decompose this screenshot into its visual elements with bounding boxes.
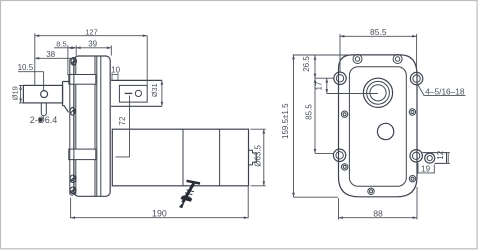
dimension 17 line xyxy=(326,78,328,93)
dimension 72 leader xyxy=(115,96,129,157)
svg-text:190: 190 xyxy=(152,209,167,219)
right view: top edge screws xyxy=(353,55,402,64)
svg-text:17: 17 xyxy=(315,81,324,90)
right view: case inner outline xyxy=(349,67,406,186)
dimension 38 line xyxy=(35,57,76,59)
svg-text:Ø19: Ø19 xyxy=(11,86,20,100)
right view: tab hole xyxy=(425,153,435,163)
mounting screw icon xyxy=(180,181,200,208)
leader 4-5/16-18 xyxy=(418,84,466,95)
left view: case screws on front face xyxy=(70,57,77,193)
left view: motor seam lines xyxy=(183,129,220,186)
bore centerline / 17 leg xyxy=(327,93,378,95)
svg-text:26.5: 26.5 xyxy=(302,56,311,72)
right view: boss hole top-right xyxy=(410,72,422,84)
dimension dia19 extension lines xyxy=(19,85,23,103)
dimension dia63.5 line xyxy=(263,129,265,186)
dimension legs to boss holes xyxy=(315,78,334,153)
right view: lower hole xyxy=(377,123,393,139)
left view: gearbox slab outline xyxy=(74,56,110,196)
left view: shaft cross hole xyxy=(41,91,48,98)
dimension 12 line xyxy=(447,153,450,164)
dimension 10.5 line xyxy=(18,71,44,73)
dimension 159.5 line xyxy=(293,55,295,197)
svg-text:19: 19 xyxy=(421,164,430,173)
dimension 85.5 top extensions xyxy=(340,34,417,72)
dimension 88 line xyxy=(339,217,418,219)
svg-text:2-Ø6.4: 2-Ø6.4 xyxy=(30,115,58,125)
right view: small case screws xyxy=(341,109,415,195)
svg-text:127: 127 xyxy=(85,28,98,37)
left view: front cover plate xyxy=(70,59,74,196)
right view: side tab xyxy=(423,153,447,164)
svg-text:12: 12 xyxy=(436,150,445,159)
right view: boss hole top-left xyxy=(334,72,346,84)
dimension 2-dia6.4 leader xyxy=(40,119,42,122)
right view: boss hole bottom-right xyxy=(410,150,422,162)
dimension 85.5 top line xyxy=(340,35,417,37)
svg-text:85.5: 85.5 xyxy=(370,27,387,37)
svg-text:10.5: 10.5 xyxy=(18,63,34,72)
left view: top mounting ear xyxy=(69,75,96,85)
dimension 159.5 legs xyxy=(293,55,348,197)
svg-text:88: 88 xyxy=(373,209,383,219)
left view: rear boss inner xyxy=(119,85,147,102)
left view: rear boss outer (dia 31) xyxy=(111,80,162,106)
dimension 19 extensions xyxy=(418,163,434,174)
left view dimension texts xyxy=(11,28,263,219)
right view: case outer outline xyxy=(339,55,418,197)
left view: output shaft xyxy=(23,85,62,103)
left view: rear shaft end circle xyxy=(135,90,141,96)
svg-text:4–5/16–18: 4–5/16–18 xyxy=(425,87,465,97)
right view dimension texts xyxy=(281,27,465,219)
dimension dia31 line xyxy=(161,80,163,106)
dimension 127 line xyxy=(35,35,147,37)
dimension 10 extensions xyxy=(112,73,118,80)
left view: shaft hub step xyxy=(63,82,70,113)
left view: motor body xyxy=(112,129,248,186)
dimension 88 extensions xyxy=(339,187,418,220)
svg-text:Ø63.5: Ø63.5 xyxy=(253,144,262,166)
svg-text:8.5: 8.5 xyxy=(56,39,66,48)
left view: gearbox seam lines xyxy=(76,56,101,196)
svg-text:10: 10 xyxy=(111,65,120,74)
dimension 190 extensions xyxy=(71,187,249,219)
dimension 127 extension lines xyxy=(35,33,147,85)
svg-text:85.5: 85.5 xyxy=(305,104,314,120)
right view: boss hole bottom-left xyxy=(333,149,345,161)
dimension 19 line xyxy=(418,172,434,174)
svg-text:Ø31: Ø31 xyxy=(150,83,159,97)
dimension dia63.5 extensions xyxy=(251,129,266,186)
svg-text:39: 39 xyxy=(88,39,97,48)
dimension 190 line xyxy=(71,217,249,219)
dimension dia19 line xyxy=(20,85,22,103)
dimension 26.5 / 85.5 vertical line xyxy=(314,55,316,78)
svg-text:72: 72 xyxy=(118,116,127,125)
left view: shaft hole slot projection xyxy=(41,103,46,116)
left view: bottom mounting ear xyxy=(69,149,96,160)
dimension 8.5 / 39 extension lines xyxy=(68,45,111,75)
svg-text:159.5±1.5: 159.5±1.5 xyxy=(281,103,290,139)
left view: rear shaft center dash xyxy=(125,92,133,94)
svg-text:38: 38 xyxy=(46,50,55,59)
left view: motor rear connector xyxy=(248,150,256,165)
dimension 10.5 extension xyxy=(43,72,45,91)
dimension 8.5 / 39 line xyxy=(54,47,68,49)
right view: output bore circles xyxy=(363,78,392,107)
